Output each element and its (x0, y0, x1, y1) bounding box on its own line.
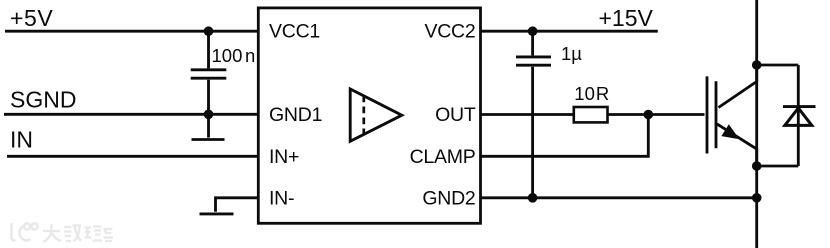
wire SGND rail (4, 113, 258, 116)
node emitter / diode junction (752, 161, 762, 171)
wire resistor to gate (608, 113, 705, 116)
watermark logo icon (12, 223, 38, 241)
svg-text:VCC1: VCC1 (269, 21, 320, 43)
label 10R (574, 83, 609, 104)
svg-text:10R: 10R (574, 83, 609, 104)
svg-text:+5V: +5V (10, 5, 53, 31)
svg-text:OUT: OUT (435, 104, 476, 126)
pin label OUT (435, 104, 476, 126)
vertical rail (collector/emitter bus) (755, 0, 758, 248)
pin label IN+ (269, 146, 299, 168)
label 100n (212, 45, 256, 66)
capacitor C1 100n (191, 31, 227, 114)
svg-text:+15V: +15V (599, 5, 654, 31)
svg-text:VCC2: VCC2 (424, 21, 475, 43)
pin label GND1 (269, 104, 322, 126)
pin label IN- (269, 188, 294, 210)
transistor Q1 collector connection (719, 65, 757, 108)
transistor Q1 IGBT body bar (715, 81, 718, 148)
ground symbol on IN- (200, 212, 234, 215)
node SGND / C1 junction (204, 110, 214, 120)
svg-text:IN-: IN- (269, 188, 294, 210)
label +5V (10, 5, 53, 31)
svg-text:100n: 100n (212, 45, 256, 66)
wire +5V rail (5, 30, 258, 33)
svg-text:SGND: SGND (10, 87, 76, 113)
pin label CLAMP (410, 146, 476, 168)
transistor Q1 emitter arrow (721, 124, 739, 139)
transistor Q1 emitter connection (717, 124, 757, 166)
op-amp buffer triangle U1 (350, 89, 402, 141)
pin label VCC1 (269, 21, 320, 43)
pin label VCC2 (424, 21, 475, 43)
resistor R1 10R (574, 107, 608, 122)
node GND2 / emitter rail junction (752, 193, 762, 203)
node gate / clamp junction (644, 110, 654, 120)
diode D1 triangle (785, 108, 812, 125)
label +15V (599, 5, 654, 31)
wire VCC2 to +15V (480, 30, 658, 33)
node collector / diode junction (752, 60, 762, 70)
wire IN to IN+ (7, 155, 258, 158)
transistor Q1 IGBT gate bar (706, 76, 709, 153)
wire diode top branch (757, 64, 799, 67)
svg-text:IN: IN (10, 127, 33, 153)
svg-text:CLAMP: CLAMP (410, 146, 476, 168)
svg-text:GND1: GND1 (269, 104, 322, 126)
wire CLAMP (480, 115, 648, 157)
wire diode vertical (797, 65, 800, 166)
label IN (10, 127, 33, 153)
node VCC2 / C2 junction (528, 26, 538, 36)
label 1u (561, 43, 582, 64)
wire OUT to resistor (480, 113, 574, 116)
IC U1 box (258, 8, 480, 223)
capacitor C2 1u (516, 31, 551, 198)
svg-text:GND2: GND2 (422, 188, 475, 210)
svg-text:1µ: 1µ (561, 43, 582, 64)
watermark text (43, 224, 113, 242)
wire diode bottom branch (757, 165, 799, 168)
ground symbol on SGND (192, 114, 225, 139)
diode D1 cathode bar (783, 105, 816, 108)
isolation barrier dashed line (362, 96, 365, 135)
wire GND2 (480, 196, 757, 199)
svg-text:IN+: IN+ (269, 146, 299, 168)
node GND2 / C2 junction (528, 193, 538, 203)
node +5V / C1 junction (204, 26, 214, 36)
wire IN- stub (216, 198, 259, 212)
pin label GND2 (422, 188, 475, 210)
label SGND (10, 87, 76, 113)
